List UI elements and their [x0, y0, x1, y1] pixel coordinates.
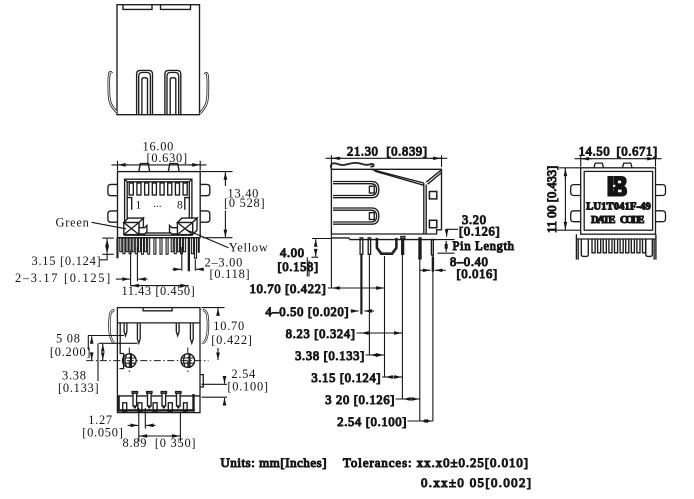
dimension 5.08 label connector [87, 336, 89, 351]
svg-text:10.70: 10.70 [213, 319, 245, 333]
row 3.20 arrow left [403, 398, 412, 400]
svg-text:Units: mm[Inches]: Units: mm[Inches] [221, 456, 327, 470]
dimension 11.43 arrow left [131, 285, 142, 287]
svg-text:[0.133]: [0.133] [58, 381, 99, 395]
dimension 3.15 arrow line up [106, 239, 108, 249]
mounting post circle left [123, 354, 137, 368]
svg-text:3.15 [0.124]: 3.15 [0.124] [311, 371, 381, 385]
row 3.20 arrow right [410, 398, 419, 400]
bottom band pin solder dot 4 [177, 406, 179, 409]
green LED side step box [139, 225, 147, 234]
bottom band pin 4 cap [176, 392, 181, 394]
green LED window 3d top face [124, 218, 144, 222]
dimension 10.70 line lower segment with arrow [217, 348, 219, 360]
dimension 14.50 arrow left [581, 158, 592, 160]
rj45 contact slot 5 [160, 183, 164, 195]
dimension 10.70 line upper segment with arrow [217, 308, 219, 316]
side view roof diagonal rear 1 [426, 170, 441, 182]
front view top mounting bump left [139, 164, 150, 172]
bottom band pin solder dot 3 [163, 406, 165, 409]
dimension 1.27 arrow left [146, 424, 156, 426]
dimension 13.40 bottom tick [203, 237, 233, 239]
dimension 2-3.00 arrow right [173, 268, 182, 270]
svg-text:CODE: CODE [620, 215, 645, 226]
front view body outline [118, 172, 201, 238]
shield left wall thick [116, 238, 118, 259]
svg-text:[0.126]: [0.126] [459, 224, 500, 238]
side view right pin [431, 240, 433, 255]
top view shield seam notch right [161, 5, 191, 10]
svg-text:10.70 [0.422]: 10.70 [0.422] [250, 282, 327, 296]
dimension 11.43 line [131, 285, 189, 287]
svg-text:11.43 [0.450]: 11.43 [0.450] [122, 284, 196, 298]
mounting post left slot chords [123, 358, 136, 363]
svg-text:...: ... [153, 198, 162, 210]
dimension 11.00 line [564, 168, 566, 230]
front view right latch bump lower [200, 211, 210, 222]
svg-text:1: 1 [136, 200, 142, 212]
side view roof diagonal front 2 [375, 171, 424, 185]
shield finger 1 [120, 238, 122, 252]
rj45 opening outer frame [125, 179, 192, 235]
row 3.15 arrow right [392, 376, 402, 378]
svg-text:3.38 [0.133]: 3.38 [0.133] [295, 349, 365, 363]
mounting post right inner crescent [184, 355, 186, 366]
top view body outline [117, 5, 200, 115]
svg-text:[0.100]: [0.100] [227, 379, 268, 393]
rj45 contact slot 7 [175, 183, 179, 195]
dimension row 8.23 line [357, 332, 403, 334]
rj45 contact slot 3 [145, 183, 149, 195]
leader line green [92, 222, 127, 229]
shield finger 11 [154, 238, 156, 255]
yellow LED window 3d top face [177, 218, 197, 222]
datum extension line from side view left edge [330, 234, 332, 288]
row 8.23 arrow left [361, 332, 370, 334]
dimension 5.08 top tick [88, 335, 124, 337]
rear view outer body [581, 168, 656, 234]
dimension 16.00 arrow left [118, 164, 128, 166]
row 10.70 arrow left [332, 287, 342, 289]
svg-text:[0.422]: [0.422] [211, 333, 252, 347]
bottom band left wall [117, 397, 119, 412]
extension line 2-3.00 right [194, 260, 196, 271]
green LED window front face [124, 223, 139, 235]
extension line right pin [432, 255, 434, 257]
row 3.38 arrow right [375, 354, 384, 356]
svg-text:11 00 [0.433]: 11 00 [0.433] [545, 165, 559, 233]
top view right ground prong outer [165, 70, 181, 114]
dimension 14.50 extension lines [581, 155, 656, 166]
pin length arrow up [445, 241, 447, 245]
svg-text:Pin Length: Pin Length [453, 239, 515, 253]
top view left ground prong inner wall [139, 73, 151, 115]
top view left side spring clip wire [109, 72, 117, 112]
svg-text:3.15 [0.124]: 3.15 [0.124] [32, 254, 102, 268]
shield finger 18 [184, 238, 186, 252]
top view left ground prong outer [137, 70, 153, 114]
dimension 4.00 label bracket [307, 257, 309, 276]
extension line thick pin [419, 259, 421, 421]
svg-text:8: 8 [177, 200, 183, 212]
thick extension line pin1 [360, 254, 362, 314]
yellow LED side step box [170, 225, 178, 234]
row 10.70 arrow right [374, 287, 384, 289]
dimension 8.89 arrow right [170, 435, 180, 437]
shield finger 9 [145, 238, 147, 252]
thick extension segment for 8-0.40 [432, 257, 434, 272]
svg-text:4.00: 4.00 [280, 246, 305, 260]
extension line pin2 [368, 254, 370, 355]
bottom band pin 2 [148, 392, 152, 406]
extension line post left [384, 256, 386, 377]
shield band top edge [118, 237, 201, 239]
side view latch slot lower outer [333, 208, 379, 224]
dimension row 3.20 line [396, 398, 420, 400]
LB logo counters [617, 180, 621, 184]
extension line 2-3.00 left [181, 247, 183, 271]
bottom band base bar [117, 409, 194, 411]
svg-text:[0.016]: [0.016] [457, 267, 498, 281]
dimension 5.08 arrow line up (to centerline) [91, 355, 93, 361]
bottom view contact prong 1 [124, 323, 127, 336]
rj45 contact slot 6 [168, 183, 172, 195]
side view partition vertical 1 [423, 183, 425, 234]
bottom band tooth 2 [138, 403, 142, 412]
dimension row 4-0.50 stub right arrow [364, 310, 374, 312]
dimension 8-0.40 right arrow [435, 269, 446, 271]
dimension 2.54 bottom tick [202, 396, 228, 398]
dimension 14.50 arrow right [645, 158, 655, 160]
dimension 4.00 bottom tick [312, 256, 319, 258]
side view latch slot upper inner [333, 184, 377, 196]
dimension 13.40 top tick [201, 171, 233, 173]
dimension 16.00 extension lines [118, 161, 201, 171]
bottom band right wall [192, 394, 194, 412]
svg-text:Yellow: Yellow [229, 240, 269, 254]
side view top spring squiggle [331, 163, 374, 169]
rear view pin comb [592, 239, 646, 253]
bottom band pin solder dot 1 [134, 406, 136, 409]
row 8.23 arrow right [392, 332, 402, 334]
svg-text:21.30 [0.839]: 21.30 [0.839] [347, 145, 428, 159]
extension line right pin lower [432, 272, 434, 422]
side view roof diagonal rear 2 [428, 173, 442, 185]
dimension 5.08 arrow line down [91, 336, 93, 341]
extension line 1.27 [144, 408, 146, 429]
side view dark pin cap [401, 237, 405, 239]
svg-text:[0 528]: [0 528] [224, 196, 265, 210]
shield finger 14 [171, 238, 173, 252]
rj45 opening left side step [127, 198, 132, 210]
rj45 contact slot 8 [183, 183, 187, 195]
dimension 8-0.40 left arrow [420, 269, 431, 271]
dimension 21.30 line [326, 157, 448, 159]
svg-text:[0.158]: [0.158] [278, 260, 319, 274]
dimension 11.00 arrow down [564, 218, 566, 230]
rj45 opening chamfer top-left [125, 179, 128, 182]
svg-text:[0.671]: [0.671] [617, 144, 658, 158]
rj45 opening right side step [185, 198, 190, 210]
side view partition vertical 2 [425, 185, 427, 234]
top view left ground prong slot [142, 78, 148, 115]
dimension 14.50 line [575, 158, 662, 160]
dimension 11.43 arrow right [177, 285, 188, 287]
extension line dark pin [401, 255, 403, 400]
shield finger 4 [129, 238, 131, 254]
dimension 3.15 arrow line down [106, 244, 108, 254]
side view body outline [331, 169, 441, 234]
bottom view contact prong 2 [137, 323, 140, 343]
top view right ground prong slot [170, 78, 176, 115]
svg-text:Tolerances: xx.x0±0.25[0.010]: Tolerances: xx.x0±0.25[0.010] [343, 456, 528, 470]
dimension 11.00 bottom tick [548, 229, 581, 231]
mounting post right split bar [188, 353, 190, 368]
dimension 2.54 arrow line up [224, 398, 226, 405]
rear view right support pin [654, 234, 656, 259]
top view shield seam notch left [123, 5, 152, 10]
side view pin shelf line [331, 238, 437, 240]
rear view left latch bump lower [571, 211, 581, 222]
center line horizontal through posts [86, 360, 208, 362]
pin length top tick [438, 239, 455, 241]
dimension 3.15 leader [100, 254, 107, 259]
rj45 opening chamfer top-right [189, 179, 192, 182]
top view right side spring clip wire [200, 73, 208, 113]
dimension 11.00 arrow up [564, 169, 566, 181]
shield finger 10 [148, 238, 150, 255]
rear view right latch bump upper [656, 185, 666, 196]
mounting post circle right [181, 354, 195, 368]
extension line pin4 right [179, 413, 181, 442]
mounting post left split bar [130, 353, 132, 368]
LB logo letter L [608, 177, 619, 196]
bottom view inner left wall line [119, 323, 121, 354]
leader line yellow [186, 230, 229, 248]
bottom view clip wire left [109, 310, 115, 343]
center line vertical post right [187, 348, 189, 375]
svg-text:4–0.50 [0.020]: 4–0.50 [0.020] [265, 305, 349, 319]
bottom band tooth 1 [123, 403, 127, 412]
rear view pin shelf line [576, 238, 656, 240]
LB logo letter B [614, 177, 627, 196]
svg-text:14.50: 14.50 [579, 144, 611, 158]
bottom view body outline [117, 308, 200, 413]
yellow LED cross [177, 223, 192, 235]
center line vertical post left [128, 348, 130, 375]
side view latch slot upper tab [369, 186, 374, 193]
bottom band pin 2 cap [147, 392, 152, 394]
side view center post outer [376, 238, 397, 254]
rj45 contact slot 4 [152, 183, 156, 195]
dimension row 2.54 line [408, 420, 433, 422]
row 3.15 arrow left [385, 376, 394, 378]
dimension 8.89 line [139, 435, 181, 437]
svg-text:Green: Green [56, 215, 90, 229]
shield finger 16 [177, 238, 179, 252]
shield finger 3 [126, 238, 128, 252]
bottom band pin 1 [133, 392, 137, 406]
row 2.54 arrow right [423, 420, 432, 422]
shield finger 19 [191, 238, 193, 254]
dimension 10.70 top tick [202, 307, 225, 309]
shield thick pin and extension for 11.43 [188, 238, 190, 272]
dimension 4.00 arrow line up [315, 252, 317, 257]
extension line 2-3.17 [136, 247, 138, 281]
dimension 3.15 bottom tick [102, 253, 114, 255]
green LED cross [124, 223, 139, 235]
svg-text:[0.630]: [0.630] [147, 151, 188, 165]
rear view wide pin left [581, 239, 588, 256]
svg-text:DATE: DATE [591, 215, 616, 226]
side view roof diagonal front 1 [371, 169, 424, 183]
dimension 2-3.17 arrow left [138, 278, 147, 280]
mounting post boss left [120, 354, 124, 369]
svg-text:2.54 [0.100]: 2.54 [0.100] [337, 415, 407, 429]
side view pin 1 [360, 238, 363, 254]
bottom band tooth 5 [184, 403, 188, 412]
top view right ground prong inner wall [167, 73, 179, 115]
bottom band tooth 3 [153, 403, 157, 412]
side view pin 2 [368, 238, 370, 254]
dimension 11.00 top tick [559, 167, 581, 169]
bottom band pin 3 cap [161, 392, 166, 394]
rear view wide pin right [646, 239, 653, 256]
shield finger 15 [174, 238, 176, 254]
bottom view contact prong 4 [190, 323, 193, 343]
extension line pin1 left [138, 408, 140, 442]
bottom band pin 4 [177, 392, 181, 406]
dimension 21.30 arrow right [431, 157, 441, 159]
dimension 3.38 label connector [97, 343, 99, 381]
dimension 3.15 top tick [102, 237, 114, 239]
shield right wall thick [198, 238, 200, 253]
dimension 8.89 arrow left [140, 435, 150, 437]
row 2.54 arrow left [421, 420, 430, 422]
rear view left latch bump upper [571, 185, 581, 196]
bottom band pin 1 cap [132, 392, 137, 394]
dimension 16.00 arrow right [190, 164, 200, 166]
shield finger 6 [135, 238, 137, 254]
bottom view clip wire right [202, 310, 208, 343]
mounting post left inner crescent [125, 355, 127, 366]
dimension 3.38 arrow line up [102, 355, 104, 360]
rj45 contact slot 1 [129, 183, 133, 195]
svg-text:LU1T041F-49: LU1T041F-49 [586, 202, 651, 213]
front view left latch bump lower [108, 211, 118, 222]
dimension row 10.70 line [328, 287, 385, 289]
dimension 2-3.00 arrow left [196, 268, 204, 270]
shield finger 20 [195, 238, 197, 259]
dimension row 3.15 line [382, 376, 402, 378]
svg-text:8.89 [0 350]: 8.89 [0 350] [123, 436, 197, 450]
rear view top bump left [594, 163, 604, 168]
rear view left support pin [576, 234, 578, 259]
bottom view shelf line [117, 395, 200, 397]
dimension 2.54 arrow line down [224, 376, 226, 384]
rear view top bump right [623, 163, 633, 168]
svg-text:3 20 [0.126]: 3 20 [0.126] [325, 393, 395, 407]
rear view right latch bump lower [656, 211, 666, 222]
svg-text:[0.118]: [0.118] [210, 267, 251, 281]
bottom band pin 3 [162, 392, 166, 406]
yellow LED window 3d side face [193, 218, 197, 235]
bottom band tooth 4 [168, 403, 172, 412]
side view thick pin [419, 238, 421, 259]
dimension 1.27 arrow right [128, 424, 138, 426]
shield finger 12 [160, 238, 162, 255]
dimension 16.00 line [112, 164, 207, 166]
dimension 2-3.17 arrow right [116, 278, 130, 280]
dimension 21.30 extension lines [331, 155, 441, 167]
svg-text:0.xx±0 05[0.002]: 0.xx±0 05[0.002] [421, 476, 531, 490]
side view dark pin [402, 239, 404, 255]
shield finger 8 [142, 238, 144, 255]
bottom view right edge tab [200, 375, 203, 387]
dimension 2.54 top tick [202, 383, 228, 385]
dimension 3.38 arrow line down [102, 344, 104, 349]
extension line from finger pair left [130, 250, 132, 285]
side view shield hole upper [429, 192, 436, 199]
yellow LED window front face [177, 223, 192, 235]
rear view inner border [584, 171, 652, 230]
shield finger 17 [181, 238, 183, 254]
pin length arrow down [445, 248, 447, 252]
dimension 4.00 arrow line down [315, 239, 317, 244]
bottom view inner fold line [117, 322, 200, 324]
side view latch slot upper outer [333, 182, 379, 198]
rj45 opening inner frame [127, 182, 189, 233]
green LED window 3d side face [139, 218, 143, 235]
dimension 13.40 line lower segment with arrow [224, 211, 226, 238]
dimension 13.40 line upper segment with arrow [224, 172, 226, 186]
rj45 contact slot 2 [137, 183, 141, 195]
shield finger 2 [123, 238, 125, 254]
svg-text:8.23 [0.324]: 8.23 [0.324] [286, 327, 356, 341]
dimension row 3.38 line [366, 354, 385, 356]
svg-text:5 08: 5 08 [56, 332, 81, 346]
shield finger 7 [138, 238, 140, 252]
front view left latch bump upper [108, 184, 118, 195]
shield finger 13 [166, 238, 168, 255]
front view top mounting bump right [168, 164, 179, 172]
svg-text:[0.050]: [0.050] [82, 426, 123, 440]
dimension 21.30 arrow left [332, 157, 342, 159]
dimension 3.38 tick [99, 342, 138, 344]
mounting post right slot chords [182, 358, 195, 363]
svg-text:[0.200]: [0.200] [50, 345, 91, 359]
row 3.38 arrow left [370, 354, 378, 356]
pin length bottom tick [438, 252, 455, 254]
shield finger 5 [132, 238, 134, 252]
bottom view top notch [143, 308, 172, 311]
bottom view contact prong 3 [176, 323, 179, 336]
side view shield hole lower [429, 220, 436, 227]
front view right latch bump upper [200, 184, 210, 195]
side view latch slot lower tab [369, 213, 374, 220]
dimension row 4-0.50 stub left arrow [351, 310, 359, 312]
side view latch slot lower inner [333, 210, 377, 222]
dimension 4.00 top tick [312, 238, 331, 240]
side view center post inner [378, 238, 396, 253]
bottom band pin solder dot 2 [148, 406, 150, 409]
svg-text:2–3.17 [0.125]: 2–3.17 [0.125] [15, 271, 111, 285]
dimension 3.20 pin bracket [447, 229, 458, 237]
